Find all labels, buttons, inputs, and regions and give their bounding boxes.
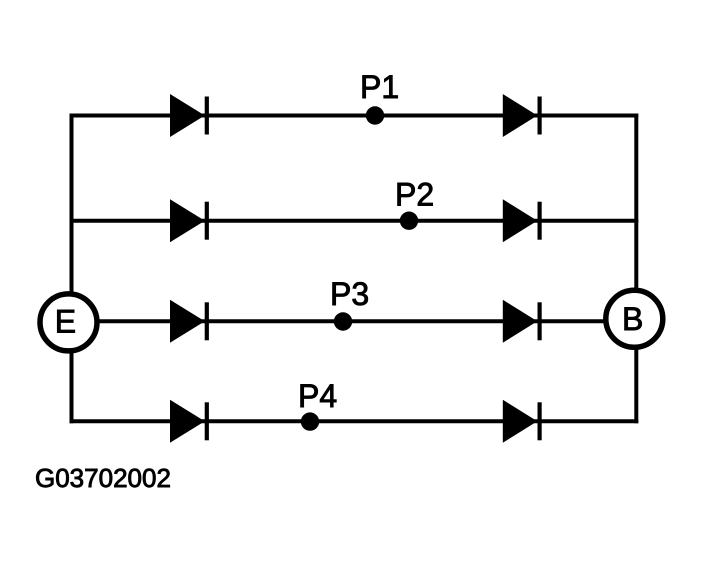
diode branch1 right [503,94,540,137]
svg-text:P2: P2 [395,177,434,213]
svg-text:G03702002: G03702002 [35,463,171,493]
svg-text:P3: P3 [330,276,369,312]
svg-text:P4: P4 [298,378,337,414]
wire: right bus upper segment (row1 corner down to terminal B) [634,114,638,290]
diode branch2 left [170,199,207,242]
wire: left bus lower segment (terminal E down to row4 corner) [70,352,74,424]
wire: branch 4 horizontal (node P4 row) [70,419,639,423]
svg-text:P1: P1 [360,69,399,105]
svg-text:B: B [622,301,643,337]
diode branch4 left [170,400,207,443]
terminal E circle [40,294,97,351]
wire: branch 2 horizontal (node P2 row) [70,219,639,223]
svg-text:E: E [55,304,76,340]
terminal B circle [606,290,663,347]
wire: branch 1 horizontal (node P1 row) [70,114,639,118]
diode branch3 left [170,300,207,343]
node P2 junction dot [400,212,418,230]
diode branch4 right [503,400,540,443]
wire: left bus upper segment (row1 corner down to terminal E) [70,114,74,294]
diode branch1 left [170,94,207,137]
diode branch3 right [503,300,540,343]
node P3 junction dot [334,312,352,330]
diode branch2 right [503,199,540,242]
wire: right bus lower segment (terminal B down to row4 corner) [634,348,638,423]
node P1 junction dot [366,106,384,124]
wire: branch 3 horizontal (terminal E to terminal B through node P3) [99,319,605,323]
node P4 junction dot [301,412,319,430]
